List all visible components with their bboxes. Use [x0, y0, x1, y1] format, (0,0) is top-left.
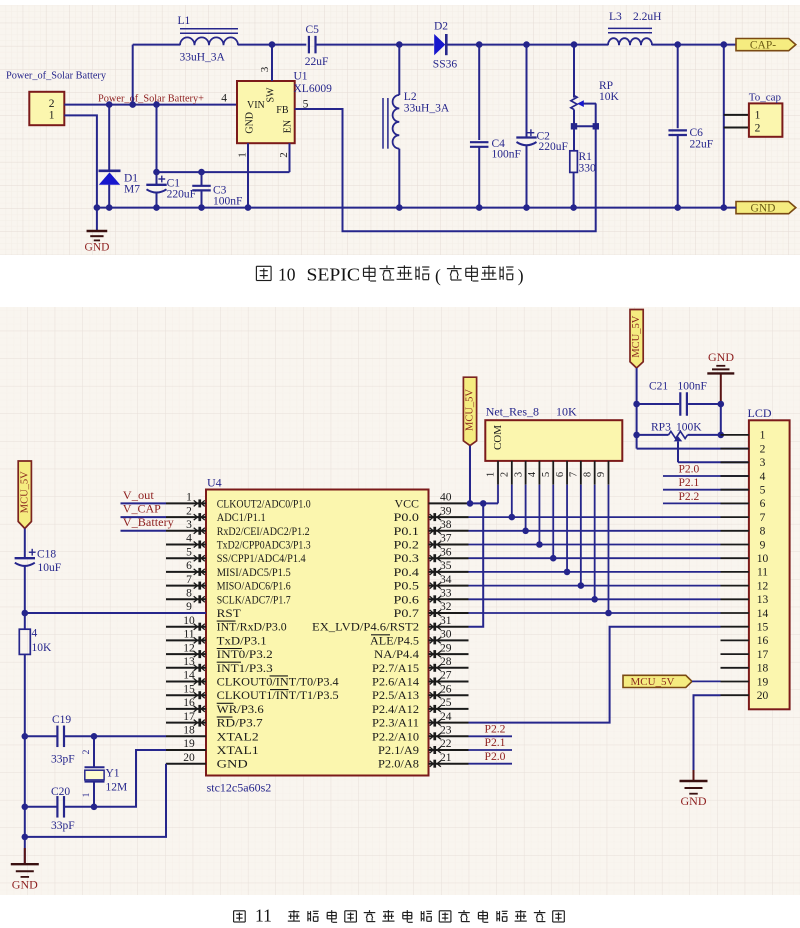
- svg-text:3: 3: [186, 519, 192, 531]
- svg-text:XTAL2: XTAL2: [217, 731, 259, 743]
- svg-text:INT1/P3.3: INT1/P3.3: [217, 663, 273, 675]
- svg-text:L3: L3: [609, 11, 622, 23]
- svg-text:P2.0: P2.0: [679, 463, 700, 475]
- svg-text:P2.2: P2.2: [679, 491, 700, 503]
- svg-text:Power_of_Solar Battery+: Power_of_Solar Battery+: [98, 92, 204, 104]
- svg-text:CLKOUT0/INT/T0/P3.4: CLKOUT0/INT/T0/P3.4: [217, 677, 339, 689]
- svg-text:25: 25: [440, 697, 452, 709]
- svg-text:MCU_5V: MCU_5V: [630, 676, 674, 688]
- svg-text:GND: GND: [217, 759, 248, 771]
- svg-text:EN: EN: [283, 120, 294, 133]
- svg-text:13: 13: [757, 594, 769, 606]
- svg-text:P2.3/A11: P2.3/A11: [372, 718, 419, 730]
- svg-text:U4: U4: [207, 476, 222, 490]
- svg-text:Y1: Y1: [106, 768, 120, 780]
- svg-text:16: 16: [757, 635, 769, 647]
- svg-text:22uF: 22uF: [690, 139, 714, 151]
- svg-text:10: 10: [278, 265, 296, 285]
- svg-text:M7: M7: [124, 184, 140, 196]
- svg-text:29: 29: [440, 642, 452, 654]
- svg-text:P2.4/A12: P2.4/A12: [372, 704, 419, 716]
- svg-text:1: 1: [186, 492, 192, 504]
- svg-text:SW: SW: [265, 87, 276, 103]
- svg-text:INT/RxD/P3.0: INT/RxD/P3.0: [217, 622, 287, 634]
- svg-text:33pF: 33pF: [51, 754, 75, 766]
- svg-text:330: 330: [579, 163, 597, 175]
- svg-text:17: 17: [757, 649, 769, 661]
- svg-text:RD/P3.7: RD/P3.7: [217, 718, 263, 730]
- svg-text:4: 4: [186, 533, 192, 545]
- svg-text:6: 6: [186, 560, 192, 572]
- svg-text:CLKOUT2/ADC0/P1.0: CLKOUT2/ADC0/P1.0: [217, 498, 311, 510]
- svg-text:12: 12: [757, 580, 769, 592]
- svg-text:8: 8: [186, 588, 192, 600]
- svg-text:P0.3: P0.3: [394, 553, 420, 565]
- svg-text:100nF: 100nF: [213, 196, 242, 208]
- svg-text:28: 28: [440, 656, 452, 668]
- svg-text:RP3: RP3: [651, 422, 671, 434]
- svg-text:5: 5: [186, 546, 192, 558]
- svg-text:19: 19: [183, 738, 195, 750]
- svg-text:36: 36: [440, 546, 452, 558]
- svg-text:P2.2: P2.2: [485, 724, 506, 736]
- svg-text:U1: U1: [294, 71, 308, 83]
- svg-text:VIN: VIN: [247, 100, 265, 111]
- svg-text:RxD2/CEI/ADC2/P1.2: RxD2/CEI/ADC2/P1.2: [217, 526, 310, 538]
- svg-text:P2.2/A10: P2.2/A10: [372, 731, 419, 743]
- svg-text:220uF: 220uF: [167, 189, 196, 201]
- svg-text:11: 11: [255, 906, 272, 926]
- svg-text:GND: GND: [681, 794, 707, 808]
- svg-text:RST: RST: [217, 608, 241, 620]
- svg-text:C20: C20: [51, 786, 70, 798]
- svg-text:GND: GND: [12, 878, 38, 892]
- svg-text:38: 38: [440, 519, 452, 531]
- svg-text:2: 2: [186, 505, 192, 517]
- svg-text:40: 40: [440, 492, 452, 504]
- svg-text:9: 9: [186, 601, 192, 613]
- svg-text:SS/CPP1/ADC4/P1.4: SS/CPP1/ADC4/P1.4: [217, 553, 306, 565]
- svg-text:D2: D2: [434, 21, 448, 33]
- svg-text:18: 18: [183, 725, 195, 737]
- svg-text:15: 15: [183, 683, 195, 695]
- svg-text:31: 31: [440, 615, 452, 627]
- svg-text:1: 1: [760, 430, 766, 442]
- svg-text:3: 3: [259, 66, 271, 72]
- svg-text:34: 34: [440, 574, 452, 586]
- svg-text:GND: GND: [85, 242, 110, 254]
- svg-text:20: 20: [183, 752, 195, 764]
- svg-text:16: 16: [183, 697, 195, 709]
- svg-text:9: 9: [760, 539, 766, 551]
- svg-text:39: 39: [440, 505, 452, 517]
- svg-text:Net_Res_8: Net_Res_8: [486, 405, 539, 419]
- svg-text:1: 1: [486, 472, 497, 477]
- svg-text:GND: GND: [244, 112, 255, 134]
- svg-text:C21: C21: [649, 381, 668, 393]
- svg-text:100nF: 100nF: [492, 149, 521, 161]
- svg-text:100K: 100K: [676, 422, 702, 434]
- svg-text:21: 21: [440, 752, 452, 764]
- svg-text:SEPIC: SEPIC: [307, 265, 361, 285]
- svg-text:32: 32: [440, 601, 452, 613]
- svg-text:4: 4: [221, 93, 227, 105]
- svg-text:33pF: 33pF: [51, 820, 75, 832]
- svg-text:TxD2/CPP0ADC3/P1.3: TxD2/CPP0ADC3/P1.3: [217, 540, 311, 552]
- svg-text:2: 2: [755, 123, 761, 135]
- svg-text:10K: 10K: [32, 642, 53, 654]
- svg-text:30: 30: [440, 629, 452, 641]
- svg-text:R1: R1: [579, 151, 593, 163]
- svg-text:3: 3: [760, 457, 766, 469]
- svg-text:TxD/P3.1: TxD/P3.1: [217, 635, 267, 647]
- svg-text:NA/P4.4: NA/P4.4: [374, 649, 419, 661]
- svg-text:P0.2: P0.2: [394, 540, 420, 552]
- svg-text:100nF: 100nF: [678, 381, 707, 393]
- svg-text:XL6009: XL6009: [294, 83, 333, 95]
- svg-text:C19: C19: [52, 714, 71, 726]
- svg-text:(: (: [435, 266, 441, 286]
- svg-text:13: 13: [183, 656, 195, 668]
- svg-text:3: 3: [513, 472, 524, 477]
- svg-text:2: 2: [49, 98, 55, 110]
- svg-text:): ): [518, 266, 524, 286]
- svg-text:6: 6: [760, 498, 766, 510]
- svg-text:5: 5: [541, 472, 552, 477]
- svg-text:1: 1: [49, 109, 55, 121]
- svg-text:P0.1: P0.1: [394, 526, 420, 538]
- svg-text:11: 11: [183, 629, 194, 641]
- svg-text:1: 1: [237, 152, 249, 158]
- svg-text:CLKOUT1/INT/T1/P3.5: CLKOUT1/INT/T1/P3.5: [217, 690, 339, 702]
- svg-text:P2.1/A9: P2.1/A9: [378, 745, 419, 757]
- svg-text:12M: 12M: [106, 782, 128, 794]
- svg-text:LCD: LCD: [748, 406, 772, 420]
- svg-text:WR/P3.6: WR/P3.6: [217, 704, 264, 716]
- svg-text:10uF: 10uF: [38, 562, 62, 574]
- svg-text:P2.7/A15: P2.7/A15: [372, 663, 419, 675]
- svg-text:35: 35: [440, 560, 452, 572]
- svg-text:P2.0: P2.0: [485, 751, 506, 763]
- svg-text:MISI/ADC5/P1.5: MISI/ADC5/P1.5: [217, 567, 291, 579]
- svg-text:10: 10: [757, 553, 769, 565]
- svg-text:2: 2: [760, 443, 766, 455]
- svg-text:2: 2: [82, 749, 92, 754]
- svg-text:24: 24: [440, 711, 452, 723]
- svg-text:P2.0/A8: P2.0/A8: [378, 759, 419, 771]
- svg-text:33uH_3A: 33uH_3A: [180, 52, 226, 64]
- svg-text:37: 37: [440, 533, 452, 545]
- svg-text:22: 22: [440, 738, 452, 750]
- svg-text:To_cap: To_cap: [749, 92, 782, 104]
- svg-text:CAP-: CAP-: [750, 40, 776, 52]
- svg-text:V_CAP: V_CAP: [123, 502, 161, 516]
- svg-text:5: 5: [760, 485, 766, 497]
- svg-text:9: 9: [596, 472, 607, 477]
- svg-text:11: 11: [757, 567, 768, 579]
- svg-text:stc12c5a60s2: stc12c5a60s2: [207, 781, 272, 795]
- svg-text:26: 26: [440, 683, 452, 695]
- svg-text:EX_LVD/P4.6/RST2: EX_LVD/P4.6/RST2: [312, 622, 419, 634]
- svg-text:33uH_3A: 33uH_3A: [404, 103, 450, 115]
- svg-text:12: 12: [183, 642, 195, 654]
- svg-text:P0.5: P0.5: [394, 581, 420, 593]
- svg-text:33: 33: [440, 588, 452, 600]
- svg-text:SS36: SS36: [433, 59, 458, 71]
- svg-text:MCU_5V: MCU_5V: [465, 389, 476, 431]
- svg-text:18: 18: [757, 663, 769, 675]
- svg-text:L1: L1: [178, 15, 191, 27]
- svg-text:10K: 10K: [599, 91, 620, 103]
- svg-text:L2: L2: [404, 91, 417, 103]
- svg-text:COM: COM: [492, 425, 504, 450]
- svg-text:VCC: VCC: [395, 498, 420, 510]
- svg-text:MCU_5V: MCU_5V: [631, 315, 642, 357]
- svg-text:20: 20: [757, 690, 769, 702]
- svg-text:XTAL1: XTAL1: [217, 745, 259, 757]
- svg-text:4: 4: [32, 628, 38, 640]
- svg-text:15: 15: [757, 622, 769, 634]
- svg-text:ADC1/P1.1: ADC1/P1.1: [217, 512, 266, 524]
- svg-text:8: 8: [582, 472, 593, 477]
- svg-text:V_out: V_out: [123, 488, 155, 502]
- svg-text:P0.6: P0.6: [394, 594, 420, 606]
- svg-text:220uF: 220uF: [539, 141, 568, 153]
- svg-text:1: 1: [755, 110, 761, 122]
- svg-text:14: 14: [183, 670, 195, 682]
- svg-text:C5: C5: [306, 24, 320, 36]
- svg-text:INT0/P3.2: INT0/P3.2: [217, 649, 273, 661]
- svg-text:2.2uH: 2.2uH: [633, 11, 661, 23]
- svg-text:7: 7: [760, 512, 766, 524]
- svg-text:P2.5/A13: P2.5/A13: [372, 690, 419, 702]
- svg-text:MCU_5V: MCU_5V: [19, 471, 30, 513]
- svg-text:10K: 10K: [556, 405, 577, 419]
- svg-text:SCLK/ADC7/P1.7: SCLK/ADC7/P1.7: [217, 594, 291, 606]
- svg-text:P2.1: P2.1: [485, 737, 506, 749]
- svg-text:P0.0: P0.0: [394, 512, 420, 524]
- svg-text:10: 10: [183, 615, 195, 627]
- svg-text:P2.1: P2.1: [679, 477, 700, 489]
- svg-text:7: 7: [186, 574, 192, 586]
- svg-text:P2.6/A14: P2.6/A14: [372, 677, 419, 689]
- svg-text:7: 7: [569, 472, 580, 477]
- svg-text:2: 2: [278, 152, 290, 158]
- svg-text:4: 4: [760, 471, 766, 483]
- svg-text:2: 2: [500, 472, 511, 477]
- svg-text:ALE/P4.5: ALE/P4.5: [370, 635, 419, 647]
- svg-text:P0.7: P0.7: [394, 608, 420, 620]
- svg-text:MISO/ADC6/P1.6: MISO/ADC6/P1.6: [217, 581, 291, 593]
- svg-text:19: 19: [757, 676, 769, 688]
- svg-text:GND: GND: [708, 350, 734, 364]
- svg-text:4: 4: [527, 471, 538, 477]
- svg-text:P0.4: P0.4: [394, 567, 420, 579]
- svg-text:14: 14: [757, 608, 769, 620]
- svg-text:Power_of_Solar Battery: Power_of_Solar Battery: [6, 70, 106, 82]
- svg-text:1: 1: [82, 792, 92, 797]
- svg-text:8: 8: [760, 526, 766, 538]
- svg-text:27: 27: [440, 670, 452, 682]
- svg-text:6: 6: [555, 472, 566, 477]
- svg-text:GND: GND: [751, 203, 776, 215]
- svg-text:FB: FB: [276, 105, 289, 116]
- svg-text:C18: C18: [37, 549, 56, 561]
- svg-text:C6: C6: [690, 127, 704, 139]
- svg-text:22uF: 22uF: [305, 56, 329, 68]
- svg-text:17: 17: [183, 711, 195, 723]
- svg-text:23: 23: [440, 725, 452, 737]
- svg-text:V_Battery: V_Battery: [123, 515, 174, 529]
